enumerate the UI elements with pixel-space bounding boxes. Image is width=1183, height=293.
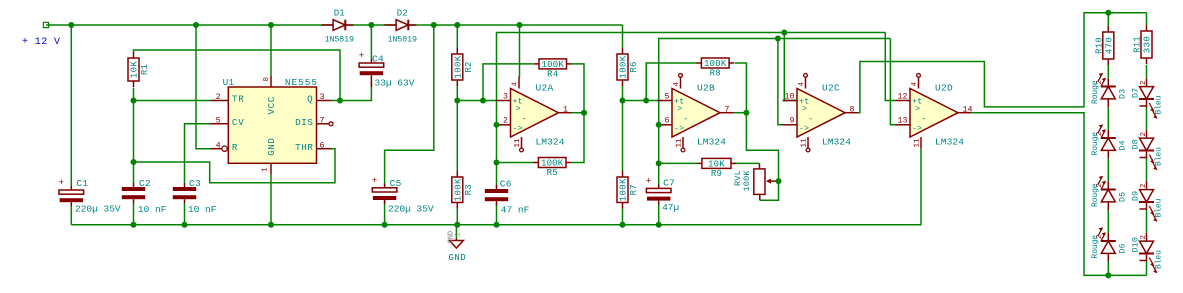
wire rail corner to R6 (622, 25, 624, 48)
svg-text:100K: 100K (453, 178, 463, 201)
svg-text:Bleu: Bleu (1155, 95, 1164, 114)
junction U2A pin2 (494, 122, 500, 128)
wire R8 right down (735, 63, 747, 113)
svg-text:3: 3 (320, 92, 325, 102)
svg-text:100K: 100K (704, 59, 727, 69)
svg-text:8: 8 (850, 105, 855, 114)
junction 555 ground (268, 222, 274, 228)
junction D1-D2 node (368, 22, 374, 28)
svg-text:->: -> (799, 125, 809, 134)
svg-text:C6: C6 (500, 179, 512, 190)
capacitor C5 (384, 184, 386, 188)
svg-text:5: 5 (216, 115, 221, 125)
svg-text:10: 10 (785, 92, 795, 101)
wire D6 to bottom bus (1107, 261, 1109, 275)
svg-text:D5: D5 (1119, 192, 1128, 202)
wire C2 bottom (133, 203, 135, 225)
wire R11 to D7 (1146, 65, 1148, 78)
svg-text:>: > (915, 104, 920, 114)
junction bottom bus (1105, 272, 1111, 278)
svg-text:D2: D2 (397, 9, 408, 19)
svg-text:470: 470 (1104, 37, 1114, 54)
wire R4 tap up (483, 64, 534, 101)
svg-text:NE555: NE555 (285, 77, 318, 88)
ground (455, 225, 457, 240)
svg-text:R6: R6 (629, 61, 639, 72)
op-amp U2C (797, 89, 845, 138)
wire top bus to R11 (1146, 13, 1148, 25)
svg-text:R10: R10 (1094, 37, 1104, 54)
svg-text:47µ: 47µ (662, 202, 679, 213)
resistor R8 (696, 62, 701, 64)
junction rail x271 (268, 22, 274, 28)
svg-text:R8: R8 (710, 69, 721, 79)
wire C6 bottom (496, 204, 498, 225)
wire boost node to C5 (385, 25, 434, 186)
svg-text:U2C: U2C (822, 83, 840, 94)
junction rail x71 (68, 22, 74, 28)
svg-text:D6: D6 (1119, 243, 1128, 253)
wire pin2 to R5 C6 (496, 125, 498, 188)
svg-text:7: 7 (725, 105, 730, 114)
resistor R3 (456, 171, 458, 177)
svg-text:LM324: LM324 (536, 136, 565, 147)
svg-text:4: 4 (673, 82, 681, 87)
svg-text:D4: D4 (1119, 140, 1128, 150)
svg-text:+: + (59, 178, 64, 188)
svg-text:U2D: U2D (935, 83, 953, 94)
svg-text:10 nF: 10 nF (188, 204, 217, 215)
svg-text:D9: D9 (1132, 191, 1141, 201)
svg-text:D7: D7 (1132, 88, 1141, 98)
svg-text:C3: C3 (189, 178, 201, 189)
wire Q node up (134, 50, 341, 101)
junction divider node B (620, 98, 626, 104)
wire R7 to ground (622, 209, 624, 225)
junction C2 ground (131, 222, 137, 228)
wire C1 to ground rail corner (70, 206, 72, 225)
junction divider node A (454, 98, 460, 104)
svg-text:Bleu: Bleu (1155, 250, 1164, 269)
wire line C (659, 39, 891, 187)
op-amp U2A (511, 89, 559, 138)
junction R4 tap (480, 98, 486, 104)
svg-text:1: 1 (563, 105, 568, 114)
wire U2D out route (970, 113, 1147, 276)
wire U2C pin10 (784, 33, 797, 101)
svg-text:DIS: DIS (295, 117, 313, 128)
wire R1 bottom (133, 88, 135, 101)
svg-text:6: 6 (320, 140, 325, 150)
svg-text:1N5819: 1N5819 (388, 36, 417, 45)
junction U2B pin6 (656, 122, 662, 128)
wire D3-D4 (1107, 107, 1109, 130)
wire pin6 stub join (658, 124, 662, 126)
svg-text:->: -> (513, 125, 523, 134)
svg-text:R4: R4 (547, 69, 558, 79)
svg-text:>: > (677, 104, 682, 114)
wire D4-D5 (1107, 159, 1109, 182)
wire output stub join (571, 112, 584, 114)
wire D8-D9 (1146, 159, 1148, 182)
wire line B (497, 33, 886, 125)
junction line C to U2C pin9 (775, 36, 781, 42)
wire R9 right to RVL top (736, 162, 760, 164)
svg-text:TR: TR (232, 93, 245, 104)
svg-text:47 nF: 47 nF (501, 205, 530, 216)
svg-text:+: + (372, 176, 377, 186)
svg-text:100K: 100K (619, 178, 629, 201)
resistor R1 (133, 52, 135, 58)
junction C7 ground (656, 222, 662, 228)
junction R9 tap (656, 160, 662, 166)
wire node to R7 (622, 101, 624, 172)
svg-text:LM324: LM324 (697, 136, 726, 147)
wire U2D pin12 (885, 33, 896, 101)
wire D9-D10 (1146, 210, 1148, 233)
wire rail to R2 (456, 25, 458, 48)
svg-text:R11: R11 (1133, 36, 1143, 53)
junction rail x196 (193, 22, 199, 28)
svg-text:220µ 35V: 220µ 35V (388, 204, 434, 215)
wire C4 bottom to Q node (340, 82, 371, 101)
svg-text:10K: 10K (130, 61, 140, 79)
svg-text:C5: C5 (390, 178, 402, 189)
svg-text:>: > (802, 104, 807, 114)
svg-text:Bleu: Bleu (1155, 147, 1164, 166)
svg-text:4: 4 (512, 82, 520, 87)
svg-text:100K: 100K (542, 60, 565, 70)
junction U2A output (581, 110, 587, 116)
svg-text:CV: CV (232, 117, 245, 128)
wire U2C out route (858, 13, 1147, 113)
svg-text:+: + (359, 51, 364, 61)
svg-text:2: 2 (1096, 183, 1104, 187)
resistor R2 (456, 48, 458, 54)
resistor R11 (1146, 25, 1148, 31)
svg-text:VCC: VCC (266, 96, 277, 114)
wire C5 bottom (384, 201, 386, 225)
svg-text:R1: R1 (140, 64, 150, 75)
wire R4 to output column (571, 64, 584, 163)
svg-text:D1: D1 (334, 9, 345, 19)
svg-text:-: - (808, 115, 813, 125)
junction C6 ground (494, 222, 500, 228)
svg-text:12: 12 (898, 92, 908, 101)
wire rail to U2A V+ (519, 25, 521, 77)
wire D1D2 node to C4 (370, 25, 372, 59)
trimmer RVL (759, 163, 761, 169)
wire R3 to ground (456, 209, 458, 225)
capacitor C1 (70, 186, 72, 190)
wire D5-D6 (1107, 210, 1109, 233)
wire node to U2B pin5 (623, 100, 659, 102)
svg-text:C4: C4 (372, 54, 384, 65)
capacitor C6 (496, 185, 498, 189)
svg-text:R9: R9 (711, 169, 722, 179)
svg-text:2: 2 (1096, 80, 1104, 84)
wire C7 bottom (658, 205, 660, 225)
wire U2D V- ground (920, 149, 923, 225)
svg-text:4: 4 (216, 140, 221, 150)
LED D3 (1107, 79, 1109, 87)
svg-text:6: 6 (665, 117, 670, 126)
LED D8 (1146, 130, 1148, 138)
svg-text:2: 2 (1140, 235, 1148, 239)
LED D9 (1146, 181, 1148, 189)
svg-text:2: 2 (1140, 80, 1148, 84)
svg-text:2: 2 (1140, 183, 1148, 187)
svg-text:11: 11 (676, 138, 684, 148)
wire node to R3 (456, 101, 458, 172)
svg-text:GND: GND (266, 137, 277, 155)
svg-text:Bleu: Bleu (1155, 198, 1164, 217)
wire D10 to bottom bus (1146, 262, 1148, 276)
svg-text:-: - (522, 115, 527, 125)
resistor R6 (622, 48, 624, 54)
svg-text:C1: C1 (76, 178, 88, 189)
wire node to 555 TR pin2 (134, 100, 211, 102)
wire ground rail (71, 224, 921, 226)
svg-text:100K: 100K (453, 55, 463, 78)
wire Q pin stub join (332, 100, 341, 102)
svg-text:D8: D8 (1132, 139, 1141, 149)
svg-text:100K: 100K (541, 159, 564, 169)
junction Q output node (337, 98, 343, 104)
svg-text:4: 4 (911, 82, 919, 87)
capacitor C7 (658, 184, 660, 188)
LED D4 (1107, 130, 1109, 138)
label connection square (43, 22, 48, 27)
diode D1 (321, 24, 333, 26)
LED D7 (1146, 78, 1148, 86)
capacitor C3 (184, 183, 186, 187)
resistor R5 (533, 162, 538, 164)
svg-text:11: 11 (914, 138, 922, 148)
svg-text:1: 1 (262, 167, 270, 172)
svg-text:10K: 10K (708, 159, 725, 169)
wire node to U2A pin3 (457, 100, 496, 102)
junction RVL wiper (776, 178, 782, 184)
svg-text:11: 11 (514, 138, 522, 148)
op-amp U2B (672, 89, 720, 138)
wire R9 left (659, 162, 697, 164)
wire THR loop (134, 149, 336, 183)
svg-text:LM324: LM324 (822, 136, 851, 147)
wire R5 left (497, 162, 534, 164)
wire R10 to D3 (1107, 65, 1109, 79)
svg-text:U1: U1 (223, 77, 235, 88)
wire R8 left up (646, 63, 697, 101)
wire U2B out to RVL wiper (746, 113, 778, 201)
svg-text:9: 9 (790, 117, 795, 126)
wire top bus to R10 (1107, 13, 1109, 26)
svg-text:R2: R2 (464, 61, 474, 72)
svg-text:>: > (516, 104, 521, 114)
svg-text:2: 2 (1096, 235, 1104, 239)
junction R8 tap (643, 98, 649, 104)
resistor R10 (1107, 26, 1109, 32)
junction C2 top node (131, 159, 137, 165)
svg-text:330: 330 (1143, 36, 1153, 53)
wire +12V rail (46, 24, 623, 26)
LED D5 (1107, 182, 1109, 190)
svg-text:14: 14 (963, 105, 973, 114)
svg-text:4: 4 (798, 82, 806, 87)
wire U2B output stub join (733, 112, 746, 114)
svg-text:2: 2 (1140, 132, 1148, 136)
junction R5 tap (494, 160, 500, 166)
svg-text:GND: GND (449, 253, 467, 263)
svg-text:R5: R5 (547, 168, 558, 178)
svg-text:C7: C7 (663, 178, 675, 189)
capacitor C4 lower pin (370, 79, 372, 87)
svg-text:R3: R3 (464, 184, 474, 195)
svg-text:3: 3 (503, 92, 508, 101)
junction D2 cathode node (431, 22, 437, 28)
junction rail U2A V+ (517, 22, 523, 28)
svg-text:+ 12 V: + 12 V (22, 37, 60, 48)
svg-text:-: - (683, 115, 688, 125)
svg-text:U2B: U2B (697, 83, 715, 94)
wire C3 bottom (184, 203, 186, 225)
svg-text:2: 2 (503, 117, 508, 126)
wire U2C pin9 (778, 39, 783, 125)
wire U2D pin13 (890, 39, 896, 125)
wire R6 bottom (622, 86, 624, 100)
svg-text:2: 2 (1096, 132, 1104, 136)
svg-text:7: 7 (320, 115, 325, 125)
svg-text:Q: Q (307, 93, 313, 104)
svg-text:1N5819: 1N5819 (325, 36, 354, 45)
LED D10 (1146, 233, 1148, 241)
svg-text:100K: 100K (742, 170, 752, 192)
svg-text:2: 2 (216, 92, 221, 102)
wire 555 GND pin to rail (270, 175, 272, 225)
wire R2 to node (456, 86, 458, 100)
resistor R9 (697, 162, 702, 164)
svg-text:33µ 63V: 33µ 63V (375, 78, 415, 89)
svg-text:1: 1 (455, 232, 463, 236)
junction R7 ground (620, 222, 626, 228)
svg-text:+: + (646, 176, 651, 186)
svg-text:->: -> (912, 125, 922, 134)
junction C5 ground (382, 222, 388, 228)
diode D2 (384, 24, 396, 26)
svg-text:R7: R7 (629, 184, 639, 195)
svg-text:10 nF: 10 nF (138, 204, 167, 215)
wire rail to C1 (70, 25, 72, 186)
junction R3 ground (454, 222, 460, 228)
junction R1 bottom node (131, 98, 137, 104)
resistor R4 (534, 63, 539, 65)
svg-text:->: -> (674, 125, 684, 134)
svg-text:5: 5 (665, 92, 670, 101)
wire node down to C2 (133, 101, 135, 184)
IC U1 NE555 body (228, 87, 316, 163)
svg-text:R: R (232, 142, 238, 153)
svg-text:220µ 35V: 220µ 35V (75, 204, 121, 215)
svg-text:100K: 100K (619, 55, 629, 78)
wire D7-D8 (1146, 107, 1148, 130)
junction line B to U2C pin10 (781, 30, 787, 36)
wire CV pin5 to C3 (185, 124, 211, 184)
svg-text:-: - (921, 115, 926, 125)
wire rail to 555 pin4 (196, 25, 211, 149)
junction C3 ground (182, 222, 188, 228)
junction top bus R10 (1105, 10, 1111, 16)
svg-text:13: 13 (898, 117, 908, 126)
LED D6 (1107, 233, 1109, 241)
svg-text:D3: D3 (1119, 89, 1128, 99)
capacitor C2 (133, 183, 135, 187)
op-amp U2D (910, 89, 958, 138)
junction U2B output (743, 110, 749, 116)
svg-text:U2A: U2A (536, 83, 554, 94)
svg-text:8: 8 (263, 77, 271, 82)
svg-text:THR: THR (295, 142, 313, 153)
svg-text:11: 11 (801, 138, 809, 148)
svg-text:LM324: LM324 (935, 136, 964, 147)
capacitor C4 (370, 59, 372, 63)
wire rail to 555 VCC (270, 25, 272, 76)
svg-text:C2: C2 (139, 178, 151, 189)
resistor R7 (622, 171, 624, 177)
junction rail R2 (454, 22, 460, 28)
